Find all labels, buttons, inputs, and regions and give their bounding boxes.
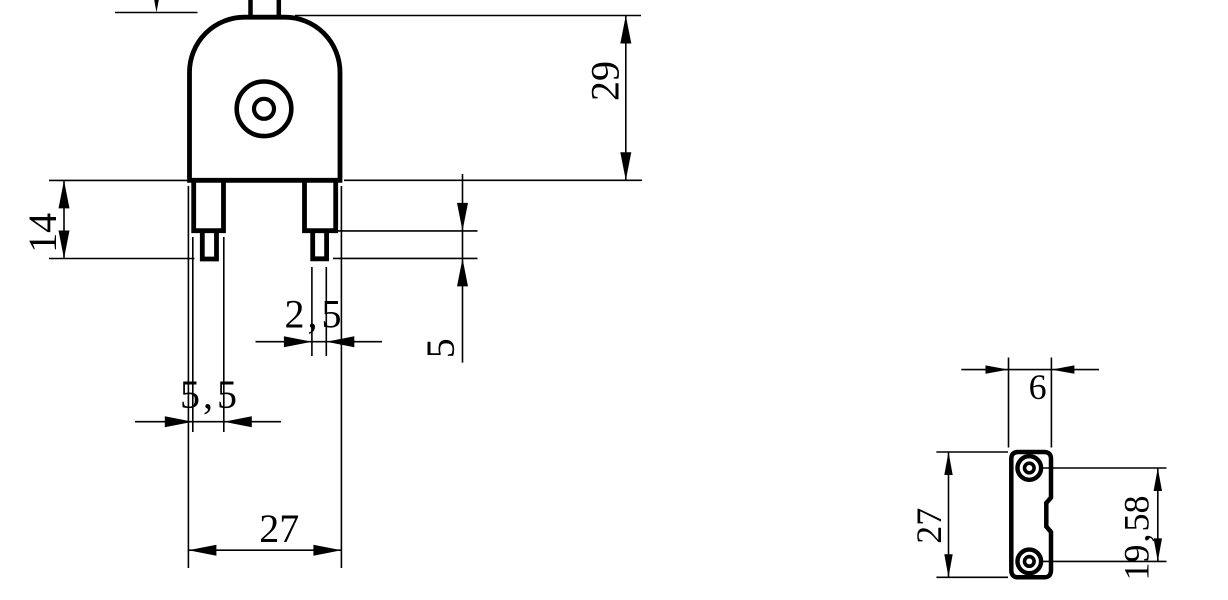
dim 27 (plate) dimension line	[948, 452, 950, 577]
dim 27 (plate) bottom extension line	[936, 576, 1008, 578]
dim 29 arrow up	[620, 16, 631, 44]
svg-text:6: 6	[1029, 367, 1047, 407]
plate bottom hole inner	[1025, 557, 1035, 567]
plate outline (side view)	[1011, 452, 1051, 577]
dim 27 right arrow	[313, 545, 341, 556]
plate top hole inner	[1025, 463, 1035, 473]
dim 27 right extension line	[340, 186, 342, 568]
svg-text:5,5: 5,5	[180, 372, 237, 417]
dim 6 right extension line	[1050, 358, 1052, 448]
dim 5,5 left extension line	[192, 237, 194, 432]
plate top hole outer	[1018, 456, 1042, 480]
dim 29 top extension line	[295, 15, 641, 17]
dim 5 shaft	[462, 174, 464, 363]
svg-text:14: 14	[20, 213, 65, 253]
dim 27 (plate) arrow up	[944, 452, 952, 475]
right leg	[305, 181, 336, 231]
dim 5 bottom extension line	[333, 257, 478, 259]
cut-off dimension extension line top-left	[115, 12, 198, 14]
dim 19,58 arrow up	[1154, 468, 1162, 491]
dim 6 left arrow	[986, 365, 1009, 373]
dim 29 bottom extension line	[344, 179, 642, 181]
dim 29 arrow down	[620, 152, 631, 180]
dim 5 top extension line	[336, 230, 478, 232]
dim 6 right arrow	[1051, 365, 1074, 373]
svg-text:27: 27	[259, 506, 299, 551]
hole outer circle	[237, 82, 292, 137]
dim 2,5 dimension line	[256, 341, 383, 343]
dim 5 down arrow	[457, 203, 468, 231]
svg-text:29: 29	[582, 61, 627, 101]
plate bottom hole outer	[1018, 550, 1042, 574]
dim 27 left arrow	[188, 545, 216, 556]
dim 2,5 right arrow	[326, 336, 354, 347]
hole inner circle	[254, 99, 274, 119]
left leg	[194, 181, 224, 231]
svg-text:19,58: 19,58	[1117, 496, 1157, 581]
dim 2,5 left arrow	[284, 336, 312, 347]
tab on top of body (cut off at sheet top)	[251, 0, 279, 16]
dim 6 dimension line	[961, 369, 1099, 371]
dim 19,58 arrow down	[1154, 538, 1162, 561]
left pin	[202, 231, 216, 259]
dim 2,5 right extension line	[325, 267, 327, 356]
svg-text:5: 5	[418, 338, 463, 358]
dim 5,5 dimension line	[135, 421, 281, 423]
dim 27 (plate) top extension line	[936, 451, 1008, 453]
dim 14 arrow down	[59, 231, 70, 259]
dim 5,5 left arrow	[165, 416, 193, 427]
dim 14 bottom extension line	[49, 258, 195, 260]
right pin	[313, 231, 327, 259]
dim 5 up arrow	[457, 258, 468, 286]
svg-text:2,5: 2,5	[285, 292, 342, 337]
dim 27 left extension line	[187, 186, 189, 568]
dim 6 left extension line	[1008, 358, 1010, 448]
dim 19,58 dimension line	[1157, 468, 1159, 561]
dim 14 arrow up	[59, 180, 70, 208]
dim 5,5 right extension line	[223, 237, 225, 432]
dim 27 dimension line	[188, 549, 341, 551]
dim 19,58 top extension line	[1042, 467, 1167, 469]
dim 27 (plate) arrow down	[944, 554, 952, 577]
svg-text:27: 27	[909, 508, 949, 544]
dim 14 top extension line	[49, 179, 187, 181]
dim 29 dimension line	[625, 16, 627, 181]
dim 19,58 bottom extension line	[1042, 560, 1167, 562]
cut-off dimension arrow	[151, 0, 161, 13]
dim 14 dimension line	[63, 180, 65, 258]
dim 5,5 right arrow	[224, 416, 252, 427]
dim 2,5 left extension line	[311, 267, 313, 356]
body outline (front view, dome top)	[190, 17, 341, 180]
